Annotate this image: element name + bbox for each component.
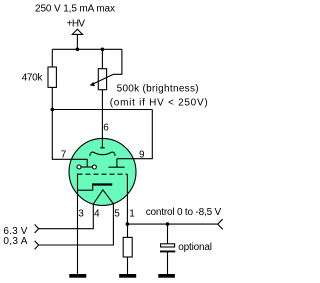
svg-text:control 0 to -8,5 V: control 0 to -8,5 V <box>146 207 222 218</box>
terminal control input chevron <box>218 219 223 229</box>
wire pin 5 lead <box>39 203 114 245</box>
svg-text:7: 7 <box>61 149 67 160</box>
wire 470k bottom lead <box>51 87 53 109</box>
svg-text:6: 6 <box>103 123 109 134</box>
node junction HV/rail <box>76 48 80 52</box>
tube anode target arc <box>90 152 115 156</box>
ground resistor <box>119 274 136 278</box>
cathode lead to pin 3 line <box>78 186 93 191</box>
svg-text:+HV: +HV <box>67 18 86 29</box>
svg-text:3: 3 <box>78 209 84 220</box>
svg-text:500k (brightness): 500k (brightness) <box>117 84 199 95</box>
deflection electrode pin9 bar <box>108 159 124 168</box>
wire grid resistor top lead <box>127 224 129 237</box>
wire 470k top lead <box>51 49 53 67</box>
grid dashed (control grid) <box>78 173 128 175</box>
node junction pot top <box>101 48 105 52</box>
potentiometer wiper arrow <box>91 74 114 85</box>
terminal 0,3A chevron <box>35 241 39 250</box>
node junction cap branch <box>166 222 170 226</box>
cathode bar <box>92 183 112 185</box>
wire pin 1 lead from grid <box>126 174 128 224</box>
svg-text:6.3 V: 6.3 V <box>3 226 27 237</box>
node junction pin1/control <box>126 222 130 226</box>
ground capacitor <box>158 274 175 278</box>
wire pin 3 grid lead down <box>77 174 79 275</box>
node junction 470k/bus <box>51 108 55 112</box>
tube EM84 envelope <box>69 138 136 205</box>
wire cap top lead <box>167 224 169 244</box>
resistor 470k <box>48 67 56 87</box>
wire top rail <box>52 48 122 50</box>
svg-text:250 V 1,5 mA max: 250 V 1,5 mA max <box>35 3 115 14</box>
ground pin3 <box>69 274 86 278</box>
wire pin 4 lead <box>39 204 94 229</box>
svg-text:0,3 A: 0,3 A <box>3 236 27 247</box>
wire cap ground lead <box>167 252 169 274</box>
resistor grid leak <box>123 237 132 257</box>
capacitor optional top plate <box>161 244 175 247</box>
wire grid resistor bottom lead <box>127 257 129 274</box>
svg-text:470k: 470k <box>22 72 44 83</box>
wire control bus <box>127 223 217 225</box>
capacitor bottom plate <box>160 251 175 253</box>
wire pin 7 stub <box>52 110 87 168</box>
svg-text:9: 9 <box>139 149 145 160</box>
svg-text:(omit if HV < 250V): (omit if HV < 250V) <box>110 97 208 108</box>
wire HV lead <box>76 34 78 49</box>
terminal 6.3V chevron <box>35 224 39 233</box>
wire pot wiper route <box>114 49 122 74</box>
svg-text:5: 5 <box>114 209 120 220</box>
svg-text:optional: optional <box>178 242 212 253</box>
wire node bus y109 <box>52 109 152 111</box>
svg-text:1: 1 <box>129 209 135 220</box>
supply arrow terminal +HV <box>72 29 82 34</box>
wire right branch to pin 9 <box>117 110 152 159</box>
deflection electrode pin7 circles <box>81 166 92 168</box>
heater filament <box>93 190 113 204</box>
svg-text:4: 4 <box>94 209 100 220</box>
potentiometer 500k body <box>98 69 106 90</box>
wire pot bottom / pin 6 lead <box>100 90 105 148</box>
wire pot top lead <box>101 49 103 68</box>
